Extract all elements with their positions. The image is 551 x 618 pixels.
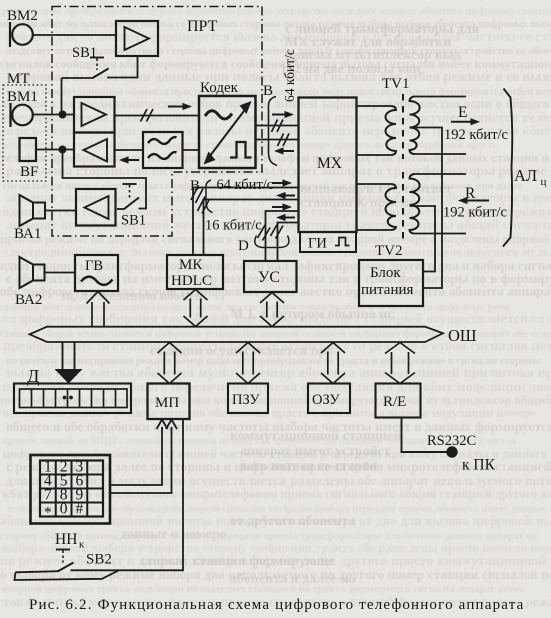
TV2 centre tap to power block — [410, 206, 436, 272]
svg-text:М 1, в котором обычно ис: М 1, в котором обычно ис — [230, 307, 393, 322]
svg-text:Е: Е — [458, 104, 467, 121]
wire R in — [413, 173, 466, 175]
svg-text:ВА2: ВА2 — [15, 292, 42, 308]
svg-text:аппарат имеет устройст: аппарат имеет устройст — [240, 444, 391, 459]
TV1 right winding — [410, 97, 420, 155]
amplifier A4 (BA1 path) — [76, 189, 116, 226]
svg-text:SB2: SB2 — [86, 552, 112, 568]
svg-text:TV2: TV2 — [375, 243, 403, 259]
svg-text:вого потока со сторон: вого потока со сторон — [240, 459, 377, 474]
svg-text:АЛ: АЛ — [514, 166, 537, 185]
filter Z1 — [143, 132, 183, 168]
wire filter to A3 — [115, 149, 144, 151]
direction arrow left from MX — [281, 150, 294, 152]
dotted MT box — [3, 85, 46, 181]
microphone BM2 — [9, 22, 11, 47]
svg-text:к: к — [79, 540, 85, 551]
svg-text:ОШ: ОШ — [448, 326, 477, 345]
switch SB1b — [117, 208, 125, 210]
loudspeaker BF — [20, 138, 37, 161]
GV box — [75, 255, 118, 291]
svg-text:НН: НН — [55, 531, 77, 548]
display cells — [31, 389, 33, 408]
arrow bus-PZU — [242, 352, 244, 375]
svg-text:к ПК: к ПК — [462, 457, 496, 474]
switch SB1a — [62, 77, 94, 79]
svg-text:ВМ1: ВМ1 — [7, 89, 38, 105]
wire TV2 right bottom — [413, 233, 466, 235]
svg-text:питания: питания — [361, 282, 414, 298]
OZU box — [308, 384, 350, 414]
svg-text:192 на две полосы кон: 192 на две полосы кон — [280, 62, 421, 77]
GI box — [300, 232, 356, 252]
arrow bus-MP — [163, 352, 165, 375]
microphone BM1 — [9, 103, 11, 127]
node dot 2 — [59, 146, 67, 154]
bundle bracket B (codec-MX) — [268, 97, 277, 166]
amplifier A1 (BM2 path) — [116, 21, 158, 56]
slashes on W1 W2 — [191, 186, 199, 201]
svg-text:ПЗУ: ПЗУ — [232, 392, 260, 408]
PZU box — [228, 384, 268, 414]
arrow GV-bus — [91, 302, 93, 327]
svg-text:16 кбит/с: 16 кбит/с — [205, 218, 262, 234]
direction arrow right (transmit) — [168, 106, 185, 108]
display box — [14, 384, 131, 414]
wire codec-MX 2 — [256, 139, 299, 141]
slashes on W3 W4 — [258, 225, 266, 238]
svg-text:речи полосы преобразователи др: речи полосы преобразователи другого обра… — [2, 6, 551, 17]
direction arrow right into MX — [272, 114, 287, 116]
MP box — [148, 384, 190, 420]
direction arrow left (receive) — [126, 159, 139, 161]
dash-dot PRT boundary — [52, 7, 262, 237]
TV1 centre tap to power block — [410, 128, 443, 289]
wire BA2 to GV — [45, 272, 76, 274]
wire A2 to codec — [115, 115, 200, 117]
svg-text:УС: УС — [258, 269, 280, 286]
arrow MK-bus — [189, 299, 191, 318]
svg-text:64 кбит/с: 64 кбит/с — [282, 49, 297, 102]
svg-text:SB1: SB1 — [121, 213, 146, 229]
switch SB2 — [58, 563, 74, 572]
vertical label 64 kbit/s — [282, 49, 297, 102]
wire A1 bottom to switch SB1a — [107, 56, 138, 78]
RS232 connector dot — [446, 446, 457, 457]
wire MP to SB2 — [112, 420, 184, 571]
svg-text:R/E: R/E — [383, 394, 406, 410]
svg-text:ВМ2: ВМ2 — [7, 8, 38, 24]
svg-text:64 кбит/с: 64 кбит/с — [217, 177, 274, 193]
bundle bracket D — [255, 236, 289, 248]
SB2 strip — [15, 570, 119, 580]
svg-text:В: В — [263, 83, 273, 99]
arrow bus-RE — [391, 352, 393, 374]
TV1 left winding — [357, 105, 392, 107]
svg-text:Рис. 6.2. Функциональная схема: Рис. 6.2. Функциональная схема цифрового… — [29, 597, 524, 613]
keypad outer box — [31, 455, 111, 524]
codec diagonal — [207, 105, 249, 161]
codec tilde — [205, 111, 232, 119]
loudspeaker BA1 — [20, 195, 34, 226]
wire W4 US to MX — [278, 223, 299, 262]
wire TV1 right bottom — [413, 153, 466, 155]
svg-text:выбора линией выбора устройств: выбора линией выбора устройство сторону … — [2, 541, 551, 555]
svg-text:сторону станции формирующе: сторону станции формирующе — [140, 554, 334, 569]
svg-text:приема режиме на передачи сигн: приема режиме на передачи сигнального ко… — [0, 232, 551, 246]
wire codec to filter — [183, 149, 200, 151]
codec box — [199, 96, 256, 168]
wire BM1 to amp — [33, 114, 74, 116]
loudspeaker BA2 — [20, 257, 34, 288]
system bus OSh — [30, 327, 444, 342]
bundle bracket B2 — [206, 180, 213, 213]
RE box — [376, 384, 421, 418]
wire keypad to MP 1 — [110, 427, 162, 485]
svg-text:полосы устройство цифровой выз: полосы устройство цифровой вызова коммут… — [0, 393, 551, 407]
svg-text:от другого абонента: от другого абонента — [230, 514, 356, 529]
svg-text:вызова электродинамические отб: вызова электродинамические отбоя приеме … — [3, 96, 551, 111]
svg-text:станции К приёму: станции К приёму — [300, 196, 416, 211]
svg-text:абонента и далее но: абонента и далее но — [230, 572, 355, 587]
US box — [244, 261, 297, 292]
MX box — [299, 98, 357, 233]
svg-text:Кодек: Кодек — [200, 80, 239, 96]
svg-text:вызова кому жестко абонента му: вызова кому жестко абонента мультиплексо… — [6, 366, 551, 381]
svg-text:ГИ: ГИ — [308, 236, 327, 252]
svg-text:D: D — [238, 238, 249, 254]
codec pulse symbol — [230, 142, 252, 158]
power supply box — [359, 260, 423, 306]
svg-text:BF: BF — [20, 164, 38, 180]
wire SB1a down to node — [61, 78, 63, 115]
wire keypad to MP 2 — [110, 427, 172, 493]
wire E out — [413, 96, 466, 98]
svg-text:телефон преобразователи на опо: телефон преобразователи на опорной данно… — [0, 151, 551, 165]
GV tilde — [81, 277, 113, 285]
subscriber line brace — [503, 89, 512, 247]
svg-text:#: # — [76, 500, 84, 517]
svg-text:RS232C: RS232C — [427, 433, 476, 449]
svg-text:ц: ц — [541, 176, 547, 188]
svg-text:устройство с о стороны абонент: устройство с о стороны абонента скорость… — [2, 140, 498, 151]
svg-text:HDLC: HDLC — [171, 273, 212, 289]
svg-text:МП: МП — [155, 395, 179, 411]
svg-text:станции осуществляется про: станции осуществляется про — [150, 344, 334, 359]
node dot 1 — [59, 111, 67, 119]
arrow bus-display — [62, 342, 64, 370]
wire codec-MX 1 — [256, 125, 299, 127]
svg-text:ПРТ: ПРТ — [187, 18, 218, 35]
bus slash marks on A2 wire — [141, 109, 148, 122]
wire BF to amp — [36, 149, 74, 151]
amplifier A2 transmit — [74, 97, 115, 133]
svg-text:*: * — [44, 504, 52, 521]
svg-text:192 кбит/с: 192 кбит/с — [443, 205, 507, 221]
direction arrows at MX left — [272, 182, 285, 184]
keypad grid — [40, 461, 103, 517]
arrow R left — [465, 200, 489, 202]
TV2 right winding — [410, 174, 420, 234]
arrow US-bus — [266, 302, 268, 318]
svg-text:МТ: МТ — [7, 71, 30, 87]
svg-text:0: 0 — [60, 500, 68, 517]
wire RE to RS232 — [402, 418, 448, 453]
TV1 core dashed — [402, 94, 404, 159]
wire BM2 to amp A1 — [33, 34, 116, 36]
wire node2 to switch SB1b — [63, 150, 147, 209]
svg-text:192 кбит/с: 192 кбит/с — [444, 127, 508, 143]
amplifier A3 receive — [74, 133, 115, 167]
MK HDLC box — [167, 255, 223, 289]
svg-text:коммутационной станцией: коммутационной станцией — [230, 429, 401, 444]
svg-text:7: 7 — [44, 486, 52, 503]
svg-text:данные о номере: данные о номере — [120, 527, 226, 542]
arrow bus-OZU — [327, 352, 329, 375]
wire W2 MK HDLC to MX — [204, 200, 299, 256]
TV2 core dashed — [402, 172, 404, 240]
svg-text:Блок: Блок — [370, 265, 401, 281]
svg-text:ВА1: ВА1 — [14, 226, 41, 242]
svg-text:ГВ: ГВ — [85, 258, 103, 274]
svg-text:ОЗУ: ОЗУ — [312, 392, 340, 408]
wire W1 MK HDLC to MX — [193, 188, 299, 256]
svg-text:МК: МК — [179, 257, 203, 273]
arrow E right — [451, 121, 473, 123]
wire W3 US to MX — [266, 211, 299, 261]
svg-text:TV1: TV1 — [382, 76, 410, 92]
wire BA1 — [45, 210, 76, 212]
TV2 left winding — [357, 183, 392, 185]
svg-text:МХ: МХ — [317, 155, 342, 172]
svg-text:SB1: SB1 — [72, 45, 97, 61]
svg-text:приема мультиплексор выд: приема мультиплексор выд — [285, 48, 461, 63]
